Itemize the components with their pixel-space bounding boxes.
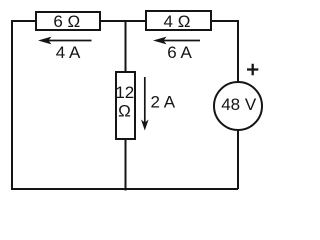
- svg-text:4 Ω: 4 Ω: [164, 12, 191, 31]
- svg-text:6 A: 6 A: [167, 43, 192, 62]
- svg-text:2 A: 2 A: [151, 92, 176, 111]
- svg-text:Ω: Ω: [118, 102, 131, 121]
- svg-text:12: 12: [115, 83, 134, 102]
- svg-text:6 Ω: 6 Ω: [53, 12, 80, 31]
- svg-text:48 V: 48 V: [221, 95, 257, 114]
- svg-text:4 A: 4 A: [56, 43, 81, 62]
